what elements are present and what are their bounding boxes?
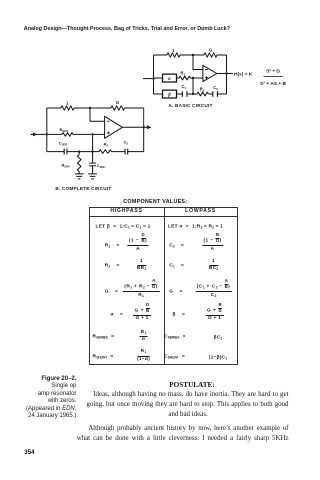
wire: top rail segments [154, 54, 227, 56]
resistor G (basic) [204, 53, 217, 57]
svg-text:S2 + D: S2 + D [266, 68, 280, 74]
svg-text:C1: C1 [182, 84, 187, 90]
svg-text:B. COMPLETE CIRCUIT: B. COMPLETE CIRCUIT [55, 186, 111, 191]
svg-text:α: α [168, 77, 171, 82]
wire: output stub [217, 73, 233, 75]
resistor 1 (basic) [167, 53, 180, 57]
wire: drop to inverting input [193, 55, 203, 70]
op-amp U2 [143, 108, 145, 127]
capacitor C1 [182, 91, 187, 97]
ground (CSHU) [88, 174, 97, 179]
resistor RSER [62, 133, 73, 137]
wire: top rail [47, 107, 144, 109]
wire: vertical node link [92, 134, 94, 151]
node beta row [192, 93, 194, 95]
node RSHU [78, 150, 80, 152]
wire: alpha row [154, 77, 203, 79]
svg-text:A. BASIC CIRCUIT: A. BASIC CIRCUIT [168, 103, 212, 108]
node output [225, 72, 227, 74]
svg-text:G: G [209, 48, 213, 53]
resistor R2 (basic) [197, 92, 209, 96]
wire: right rail [226, 55, 228, 94]
postulate line 1 [93, 390, 288, 400]
wire: left rail [153, 55, 155, 94]
svg-text:C2: C2 [213, 85, 218, 91]
wire: right rail bottom [143, 127, 145, 151]
wire: output [122, 126, 150, 128]
svg-text:β: β [167, 93, 171, 98]
wire: input with arrow [31, 133, 47, 135]
capacitor CSER [64, 149, 67, 155]
node on top rail [192, 54, 194, 56]
svg-text:RSHU: RSHU [62, 163, 71, 169]
page number [24, 449, 34, 456]
svg-text:CSHU: CSHU [97, 163, 106, 169]
node alpha row [192, 77, 194, 79]
capacitor C2 [213, 91, 218, 97]
svg-text:CSER: CSER [59, 141, 67, 147]
wire: input stub [143, 78, 154, 80]
LOWPASS rows [89, 227, 91, 228]
svg-text:C2: C2 [124, 140, 129, 146]
resistor R1 (basic) [179, 76, 191, 80]
resistor G (complete) [111, 106, 125, 110]
capacitor C2 (complete) [125, 149, 128, 155]
paragraph line 1 [88, 424, 288, 434]
wire: drop to inverting input [90, 108, 105, 121]
postulate line 2 [87, 400, 289, 410]
capacitor CSHU (vertical) [89, 152, 96, 174]
figure caption [0, 376, 76, 421]
table title [123, 199, 187, 205]
component values table [89, 207, 239, 366]
svg-text:1: 1 [66, 101, 69, 106]
resistor R2 (complete) [99, 150, 112, 154]
POSTULATE heading [169, 381, 214, 391]
svg-text:RSER: RSER [60, 127, 68, 133]
node CSHU [91, 150, 93, 152]
FIGURE: circuits [0, 0, 313, 200]
svg-text:1: 1 [172, 48, 175, 53]
wire: left rail [46, 108, 48, 152]
svg-text:G: G [116, 100, 120, 105]
wire: + input row [47, 133, 105, 135]
wire: beta row [154, 93, 227, 95]
ground (RSHU) [75, 174, 84, 179]
svg-text:R2: R2 [200, 86, 205, 92]
running head [24, 26, 230, 32]
resistor RSHU (vertical) [77, 152, 81, 174]
svg-text:S2 + AS + B: S2 + AS + B [260, 81, 286, 87]
op-amp U1 [203, 65, 217, 81]
svg-text:R1: R1 [181, 71, 186, 77]
node top rail [89, 107, 91, 109]
wire: CSER row [47, 151, 144, 153]
HIGHPASS rows [89, 227, 91, 228]
wire: node link vertical [192, 78, 194, 94]
svg-text:R2: R2 [104, 141, 109, 147]
block beta [163, 90, 177, 98]
resistor 1 (complete) [61, 106, 74, 110]
node: input junction [152, 77, 154, 79]
node output (complete) [143, 126, 145, 128]
block alpha [163, 74, 177, 82]
postulate line 3 [168, 410, 207, 420]
paragraph line 2 [77, 434, 289, 444]
node: input junction [46, 133, 48, 135]
svg-text:H(s) = K: H(s) = K [234, 72, 253, 78]
node + row [91, 133, 93, 135]
